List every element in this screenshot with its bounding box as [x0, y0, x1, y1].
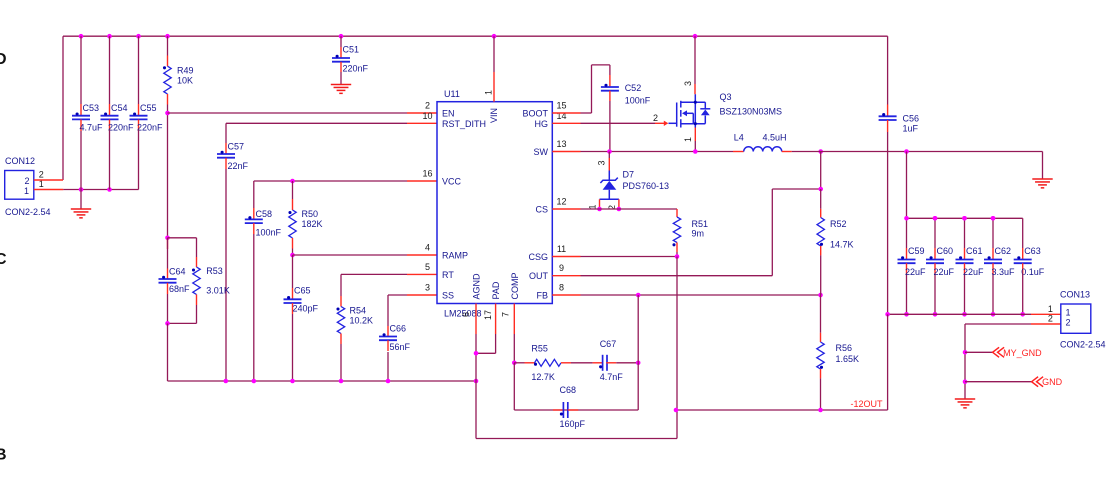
junction -12OUT/R51: [674, 408, 679, 413]
junction CSG/R51: [675, 254, 680, 259]
pin stub: [253, 208, 255, 219]
pin stub: [676, 243, 678, 253]
pin stub: [934, 263, 936, 275]
wire C61 lower: [964, 275, 966, 314]
wire BOOT to C52: [581, 65, 610, 113]
pin stub: [167, 269, 169, 280]
junction: [962, 312, 967, 317]
svg-text:220nF: 220nF: [137, 123, 163, 133]
capacitor C67: [599, 355, 607, 371]
pin stub: [387, 326, 389, 337]
junction: [252, 379, 257, 384]
capacitor C64: [159, 276, 177, 283]
wire AGND left bus: [168, 380, 477, 382]
D7 cathode stub: [608, 158, 610, 171]
svg-text:C59: C59: [908, 246, 925, 256]
svg-text:220nF: 220nF: [343, 64, 369, 74]
svg-text:RST_DITH: RST_DITH: [442, 119, 486, 129]
Q3 source stub: [694, 128, 696, 142]
D7 pin 1 stub: [599, 199, 601, 209]
pin stub: [964, 248, 966, 260]
resistor R55: [535, 359, 562, 366]
wire HG to gate: [581, 122, 656, 124]
svg-text:C51: C51: [343, 45, 360, 55]
junction VIN: [492, 34, 497, 39]
pin stub: [167, 239, 169, 250]
svg-text:5: 5: [425, 262, 430, 272]
pin stub: [606, 362, 616, 364]
junction D7 anode a: [597, 207, 602, 212]
svg-text:14.7K: 14.7K: [830, 240, 854, 250]
wire R56 bottom: [820, 378, 822, 410]
pin stub: [1022, 248, 1024, 260]
svg-text:AGND: AGND: [472, 273, 482, 300]
svg-text:SW: SW: [534, 147, 549, 157]
wire Q3 source to SW: [694, 141, 696, 152]
svg-text:D: D: [0, 51, 7, 68]
wire -12OUT line: [676, 314, 888, 410]
wire R49 top: [167, 36, 169, 55]
junction -12OUT/R56: [818, 408, 823, 413]
wire C52 bottom to SW: [609, 101, 611, 152]
wire VIN top bus and drop to CON12 pin2: [63, 36, 888, 180]
capacitor C68: [560, 402, 568, 418]
inductor L4: [744, 147, 782, 152]
svg-text:RAMP: RAMP: [442, 251, 468, 261]
resistor R53 stub: [196, 257, 198, 267]
pin stub: [340, 296, 342, 307]
pin stub: [340, 334, 342, 345]
svg-text:220nF: 220nF: [108, 123, 134, 133]
wire C66 bottom: [387, 352, 389, 381]
wire COMP drop: [513, 334, 515, 363]
resistor R56: [817, 342, 824, 369]
junction Q3 drain top: [693, 34, 698, 39]
pin stub: [167, 283, 169, 294]
junction OUT/R52: [818, 187, 823, 192]
wire C54 lower: [109, 131, 111, 190]
capacitor C61: [956, 256, 974, 263]
wire D7 top: [608, 152, 610, 159]
wire OUT to R52 top: [581, 189, 821, 276]
ground C51: [331, 85, 351, 94]
resistor R52: [817, 218, 824, 247]
connector CON13: [1061, 304, 1091, 333]
wire FB line: [581, 294, 821, 296]
svg-text:SS: SS: [442, 291, 454, 301]
pin stub: [138, 120, 140, 132]
pin stub: [80, 104, 82, 116]
svg-text:3: 3: [425, 283, 430, 293]
junction C55 top: [136, 34, 141, 39]
pin stub: [934, 248, 936, 260]
pin stub: [167, 94, 169, 105]
pin stub FB 8: [552, 294, 580, 296]
wire: [514, 362, 524, 364]
junction: [933, 312, 938, 317]
wire cap bank top line: [907, 152, 1023, 219]
wire R51 bottom: [676, 252, 678, 257]
junction C51: [339, 34, 344, 39]
pin stub: [906, 248, 908, 260]
capacitor C53: [72, 112, 90, 119]
pin stub: [820, 246, 822, 255]
svg-text:Q3: Q3: [720, 92, 732, 102]
resistor R51: [673, 217, 680, 243]
svg-text:100nF: 100nF: [256, 228, 282, 238]
capacitor C63: [1014, 256, 1032, 263]
wire to gnd right: [1042, 152, 1044, 179]
wire CON13 pin2 to gnd: [965, 324, 1031, 399]
svg-text:68nF: 68nF: [169, 284, 190, 294]
svg-text:R54: R54: [350, 306, 367, 316]
junction AGND bus: [474, 379, 479, 384]
resistor R52 stub: [820, 209, 822, 218]
junction MY_GND: [963, 350, 968, 355]
svg-text:4.7uF: 4.7uF: [80, 123, 104, 133]
wire: [820, 295, 822, 333]
svg-text:1: 1: [1066, 308, 1071, 318]
Q3 drain stub: [694, 84, 696, 94]
pin stub: [196, 295, 198, 306]
svg-text:C: C: [0, 251, 7, 268]
svg-text:C67: C67: [600, 339, 617, 349]
pin stub: [609, 91, 611, 101]
ground CON13: [955, 399, 975, 408]
junction C67/FB branch: [636, 361, 641, 366]
junction C60 top: [933, 216, 938, 221]
junction C64/R53 bottom: [165, 321, 170, 326]
wire: [820, 189, 822, 209]
pin stub: [553, 409, 563, 411]
svg-text:1: 1: [683, 137, 693, 142]
svg-text:4.7nF: 4.7nF: [600, 372, 624, 382]
resistor R49: [164, 66, 171, 94]
pin stub: [109, 104, 111, 116]
svg-text:CON12: CON12: [5, 156, 35, 166]
port GND: [1032, 377, 1063, 388]
pin stub VCC 16: [407, 180, 437, 182]
svg-text:11: 11: [557, 244, 566, 254]
capacitor C60: [926, 256, 944, 263]
svg-text:12: 12: [556, 197, 566, 207]
wire Q3 drain: [694, 36, 696, 84]
resistor R53: [193, 267, 200, 295]
pin stub BOOT 15: [552, 112, 580, 114]
capacitor C55: [130, 112, 148, 119]
connector CON12: [5, 171, 34, 200]
capacitor C54: [101, 112, 119, 119]
wire C67 right: [616, 362, 638, 364]
pin stub: [80, 120, 82, 132]
svg-text:C52: C52: [625, 83, 642, 93]
svg-text:MY_GND: MY_GND: [1003, 348, 1042, 358]
svg-text:4.5uH: 4.5uH: [763, 133, 787, 143]
wire C63 upper: [1022, 218, 1024, 248]
wire R55 to C67: [571, 362, 593, 364]
Q3 substrate arrow: [682, 110, 687, 116]
pin stub AGND 6: [475, 304, 477, 335]
svg-text:CS: CS: [535, 205, 548, 215]
wire to MY_GND port: [965, 351, 993, 353]
svg-text:CON13: CON13: [1060, 290, 1090, 300]
junction C52/SW: [607, 149, 612, 154]
wire R54 bottom: [340, 344, 342, 381]
svg-text:240pF: 240pF: [293, 304, 319, 314]
svg-text:VIN: VIN: [489, 108, 499, 123]
pin stub CSG 11: [552, 256, 580, 258]
pin stub OUT 9: [552, 275, 580, 277]
svg-text:12.7K: 12.7K: [531, 372, 555, 382]
junction C64/R53 top: [165, 236, 170, 241]
svg-text:22uF: 22uF: [905, 267, 926, 277]
resistor R51 stub: [676, 209, 678, 217]
svg-text:HG: HG: [535, 119, 549, 129]
svg-text:10.2K: 10.2K: [350, 316, 374, 326]
wire C51 to gnd: [340, 72, 342, 84]
junction D7 anode b: [617, 207, 622, 212]
pin stub: [593, 362, 603, 364]
svg-text:D7: D7: [623, 170, 635, 180]
svg-text:C64: C64: [169, 266, 186, 276]
svg-text:R51: R51: [692, 219, 709, 229]
wire C55 upper: [138, 36, 140, 104]
wire VCC line: [254, 181, 407, 208]
resistor R49 stub: [167, 56, 169, 67]
pin stub HG 14: [552, 122, 580, 124]
wire C62 lower: [992, 275, 994, 314]
svg-text:PAD: PAD: [491, 281, 501, 299]
junction: [962, 216, 967, 221]
svg-text:56nF: 56nF: [390, 342, 411, 352]
svg-text:CON2-2.54: CON2-2.54: [1060, 340, 1106, 350]
wire VIN drop: [493, 36, 495, 72]
wire R53 bottom: [168, 305, 197, 323]
pin stub: [225, 158, 227, 169]
junction: [224, 379, 229, 384]
pin stub CS 12: [552, 208, 580, 210]
ground GND1 symbol: [71, 209, 91, 218]
junction R49 top: [165, 34, 170, 39]
wire C58 to gnd bus: [253, 234, 255, 381]
svg-text:2: 2: [1048, 314, 1053, 324]
inductor L4 stub right: [782, 151, 792, 153]
svg-text:C63: C63: [1024, 246, 1041, 256]
svg-text:BSZ130N03MS: BSZ130N03MS: [720, 107, 783, 117]
svg-text:100nF: 100nF: [625, 96, 651, 106]
wire to GND port: [965, 381, 1032, 383]
svg-text:OUT: OUT: [529, 271, 549, 281]
Q3 body diode triangle: [701, 110, 710, 116]
svg-text:3: 3: [597, 160, 607, 165]
capacitor C57: [217, 151, 235, 158]
pin stub: [225, 143, 227, 154]
pin stub: [138, 104, 140, 116]
wire C54 upper: [109, 36, 111, 104]
junction EN: [165, 111, 170, 116]
junction C56/-12OUT riser: [885, 312, 890, 317]
junction: [290, 379, 295, 384]
svg-text:C55: C55: [140, 103, 157, 113]
svg-text:COMP: COMP: [510, 273, 520, 300]
wire R51 to -12OUT: [676, 257, 678, 411]
svg-text:1: 1: [1048, 304, 1053, 314]
svg-text:-12OUT: -12OUT: [851, 399, 884, 409]
capacitor C66: [379, 333, 397, 340]
junction GND: [963, 379, 968, 384]
capacitor C59: [898, 256, 916, 263]
wire C65 top: [292, 255, 294, 288]
junction: [933, 216, 938, 221]
junction C53 top: [79, 34, 84, 39]
wire AGND/PAD: [476, 334, 496, 439]
CON13 pin2 stub: [1031, 323, 1061, 325]
pin stub: [992, 263, 994, 275]
junction: [991, 312, 996, 317]
pin stub COMP 7: [513, 304, 515, 335]
pin stub: [906, 263, 908, 275]
svg-text:C53: C53: [83, 103, 100, 113]
junction: [904, 312, 909, 317]
capacitor C65: [284, 296, 302, 303]
pin stub: [887, 105, 889, 117]
svg-text:C60: C60: [937, 246, 954, 256]
svg-text:FB: FB: [536, 291, 548, 301]
svg-text:U11: U11: [444, 89, 460, 99]
svg-text:C58: C58: [256, 209, 273, 219]
pin stub: [964, 263, 966, 275]
pin stub: [109, 120, 111, 132]
wire C61 upper: [964, 218, 966, 248]
svg-text:3: 3: [683, 81, 693, 86]
svg-text:C66: C66: [390, 324, 407, 334]
svg-text:2: 2: [39, 170, 44, 180]
pin stub VIN 1: [493, 72, 495, 102]
wire C55 lower: [138, 131, 140, 190]
junction C54 top: [107, 34, 112, 39]
wire GND line right: [792, 151, 1043, 153]
svg-text:C61: C61: [966, 246, 983, 256]
svg-text:R55: R55: [531, 343, 548, 353]
pin stub: [292, 238, 294, 249]
svg-text:BOOT: BOOT: [522, 109, 548, 119]
wire R49 bottom to EN/C64: [167, 105, 169, 238]
wire C53 upper: [80, 36, 82, 104]
junction C61 top: [962, 216, 967, 221]
pin stub: [887, 120, 889, 132]
junction R50 top: [290, 179, 295, 184]
svg-text:2: 2: [1066, 318, 1071, 328]
wire GND line from CON12 pin1: [63, 189, 138, 191]
resistor R55 stub: [525, 362, 535, 364]
CON13 pin1 stub: [1031, 313, 1061, 315]
junction AGND/PAD: [474, 351, 479, 356]
wire EN line: [168, 112, 408, 114]
svg-text:6: 6: [461, 312, 471, 317]
svg-text:R53: R53: [206, 266, 223, 276]
svg-text:R49: R49: [177, 66, 194, 76]
svg-text:PDS760-13: PDS760-13: [623, 181, 670, 191]
svg-text:RT: RT: [442, 270, 454, 280]
wire CS line: [581, 208, 678, 210]
svg-text:4: 4: [425, 243, 430, 253]
wire C64 top: [167, 238, 169, 269]
wire SW line: [581, 151, 734, 153]
pin stub: [292, 303, 294, 314]
svg-text:C62: C62: [995, 246, 1012, 256]
svg-text:1: 1: [24, 186, 29, 196]
svg-text:L4: L4: [734, 133, 744, 143]
junction R52 net: [818, 149, 823, 154]
wire CSG line: [581, 256, 678, 258]
svg-text:15: 15: [556, 101, 566, 111]
wire: [292, 249, 294, 256]
svg-text:2: 2: [425, 101, 430, 111]
pin stub: [292, 288, 294, 299]
pin stub EN 2: [407, 112, 437, 114]
wire AGND bottom bus: [476, 410, 677, 439]
resistor R56 stub: [820, 333, 822, 342]
svg-text:17: 17: [483, 310, 493, 320]
svg-text:GND: GND: [1042, 377, 1063, 387]
ground right: [1032, 179, 1052, 188]
wire ground stem: [80, 190, 82, 209]
pin stub: [253, 223, 255, 234]
junction: [1020, 312, 1025, 317]
junction C62 top: [991, 216, 996, 221]
junction: [386, 379, 391, 384]
svg-text:C57: C57: [228, 142, 245, 152]
svg-text:C54: C54: [111, 103, 128, 113]
junction C53/gnd: [79, 187, 84, 192]
wire: [292, 181, 294, 199]
svg-text:7: 7: [501, 312, 511, 317]
D7 pin 2 stub: [618, 199, 620, 209]
op-amp U11 LM25088 body: [437, 102, 552, 304]
pin stub: [340, 47, 342, 58]
svg-text:3.01K: 3.01K: [206, 285, 230, 295]
wire SS line: [388, 295, 407, 326]
inductor L4 stub left: [733, 151, 744, 153]
svg-text:C68: C68: [560, 385, 577, 395]
resistor R54: [337, 307, 344, 334]
pin stub: [561, 362, 571, 364]
pin stub RST_DITH 10: [407, 122, 437, 124]
pin stub: [820, 369, 822, 378]
wire R52 bottom: [820, 255, 822, 295]
svg-text:1.65K: 1.65K: [836, 354, 860, 364]
junction: [991, 216, 996, 221]
wire C56 top: [887, 36, 889, 104]
junction: [339, 379, 344, 384]
junction C54/gnd: [107, 187, 112, 192]
wire down to gnd bus: [167, 323, 169, 381]
svg-text:VCC: VCC: [442, 177, 462, 187]
capacitor C58: [245, 216, 263, 223]
CON12 pin 2 stub: [34, 179, 63, 181]
D7 triangle: [603, 181, 617, 190]
svg-text:3.3uF: 3.3uF: [992, 267, 1016, 277]
wire C53 lower: [80, 131, 82, 190]
wire C60 upper: [934, 218, 936, 248]
pin stub PAD 17: [495, 304, 497, 335]
gate arrow Q3 pin 2: [655, 121, 668, 126]
wire RAMP line: [293, 254, 408, 256]
svg-text:R50: R50: [302, 209, 319, 219]
CON12 pin 1 stub: [34, 189, 64, 191]
junction FB/C67: [636, 293, 641, 298]
svg-text:10K: 10K: [177, 75, 193, 85]
